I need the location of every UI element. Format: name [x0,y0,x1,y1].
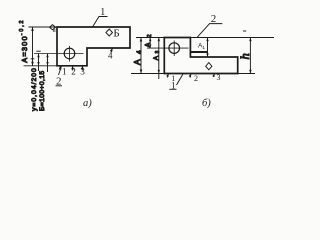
top extension line fig b [136,37,274,39]
datum diamond fig b [206,63,212,70]
svg-text:2: 2 [71,66,76,76]
support point 4 arrow (step surface) fig a [110,48,113,53]
svg-text:у=0,04/200: у=0,04/200 [31,67,38,111]
dimension line A1 fig b [206,38,208,58]
svg-text:1: 1 [100,7,105,18]
svg-text:4: 4 [108,50,113,60]
hole horizontal centerline fig a [34,53,84,55]
hole vertical centerline fig b [173,41,175,57]
svg-text:3: 3 [217,73,221,82]
svg-text:2: 2 [211,13,217,25]
hole (circle) fig a [64,48,75,59]
svg-text:1: 1 [171,81,176,91]
hole horizontal centerline fig b [147,47,189,49]
support point 3 arrow fig b [212,74,214,78]
svg-text:h: h [238,53,252,59]
hole vertical centerline fig a [69,46,71,62]
svg-text:3: 3 [80,66,85,76]
bottom extension line fig b [131,73,255,75]
dimension line A3 fig b [158,38,160,80]
svg-text:Б: Б [113,27,119,39]
svg-text:2: 2 [194,74,198,83]
datum diamond v (top-left) fig a [49,25,55,30]
svg-text:А3: А3 [153,50,161,60]
svg-text:в: в [53,28,56,34]
support point 3 arrow fig a [81,66,84,71]
part outline fig b [164,38,237,74]
support point 2 arrow fig a [71,66,74,71]
part outline fig a [57,27,130,66]
top extension line fig a [29,26,58,28]
support point 1 arrow fig b [166,74,168,78]
datum diamond B fig a [106,29,113,36]
leader 1 (top surface) fig a [93,17,108,28]
dimension line A2 fig b [149,38,151,49]
dimension line A4 fig b [140,38,143,74]
surface leader 2 (bottom) fig a [59,66,62,75]
leader 2 (bottom surface now top) fig b [197,24,223,38]
dimension line y=0,04/200 fig a [36,51,40,71]
dimension line A=300 fig a [31,27,35,66]
svg-text:а): а) [83,98,92,109]
hole (circle) fig b [169,43,180,54]
dimension line B=100+0,15 fig a [46,54,48,73]
support point 2 arrow fig b [189,74,191,78]
support point 1 arrow fig a [59,66,62,71]
svg-text:1: 1 [62,66,67,76]
bottom extension line fig a [24,65,58,67]
dimension line h fig b [243,31,252,74]
dimension A1 shelf bar fig b [191,51,208,53]
surface leader 1 (bottom) fig b [177,74,184,85]
svg-text:б): б) [202,98,211,109]
svg-text:Б=100+0,15: Б=100+0,15 [39,71,46,111]
